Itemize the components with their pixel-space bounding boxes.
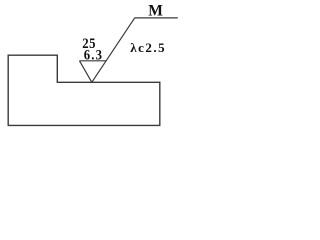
wire: short left leg of check mark <box>80 61 92 83</box>
wire: horizontal bar closing the vee <box>79 60 106 62</box>
wire: left edge <box>7 55 9 126</box>
svg-text:M: M <box>148 2 163 19</box>
wire: right edge <box>159 82 161 126</box>
wire: horizontal leader extension line <box>134 17 177 19</box>
wire: long right leg of check mark up to leader <box>92 18 135 82</box>
wire: bottom edge <box>8 124 161 126</box>
svg-text:6.3: 6.3 <box>84 48 103 64</box>
wire: top edge of tall left section <box>8 54 58 56</box>
wire: top edge of lower right section (measured surface) <box>57 81 161 83</box>
svg-text:λc2.5: λc2.5 <box>130 40 166 55</box>
wire: step vertical <box>56 55 58 83</box>
